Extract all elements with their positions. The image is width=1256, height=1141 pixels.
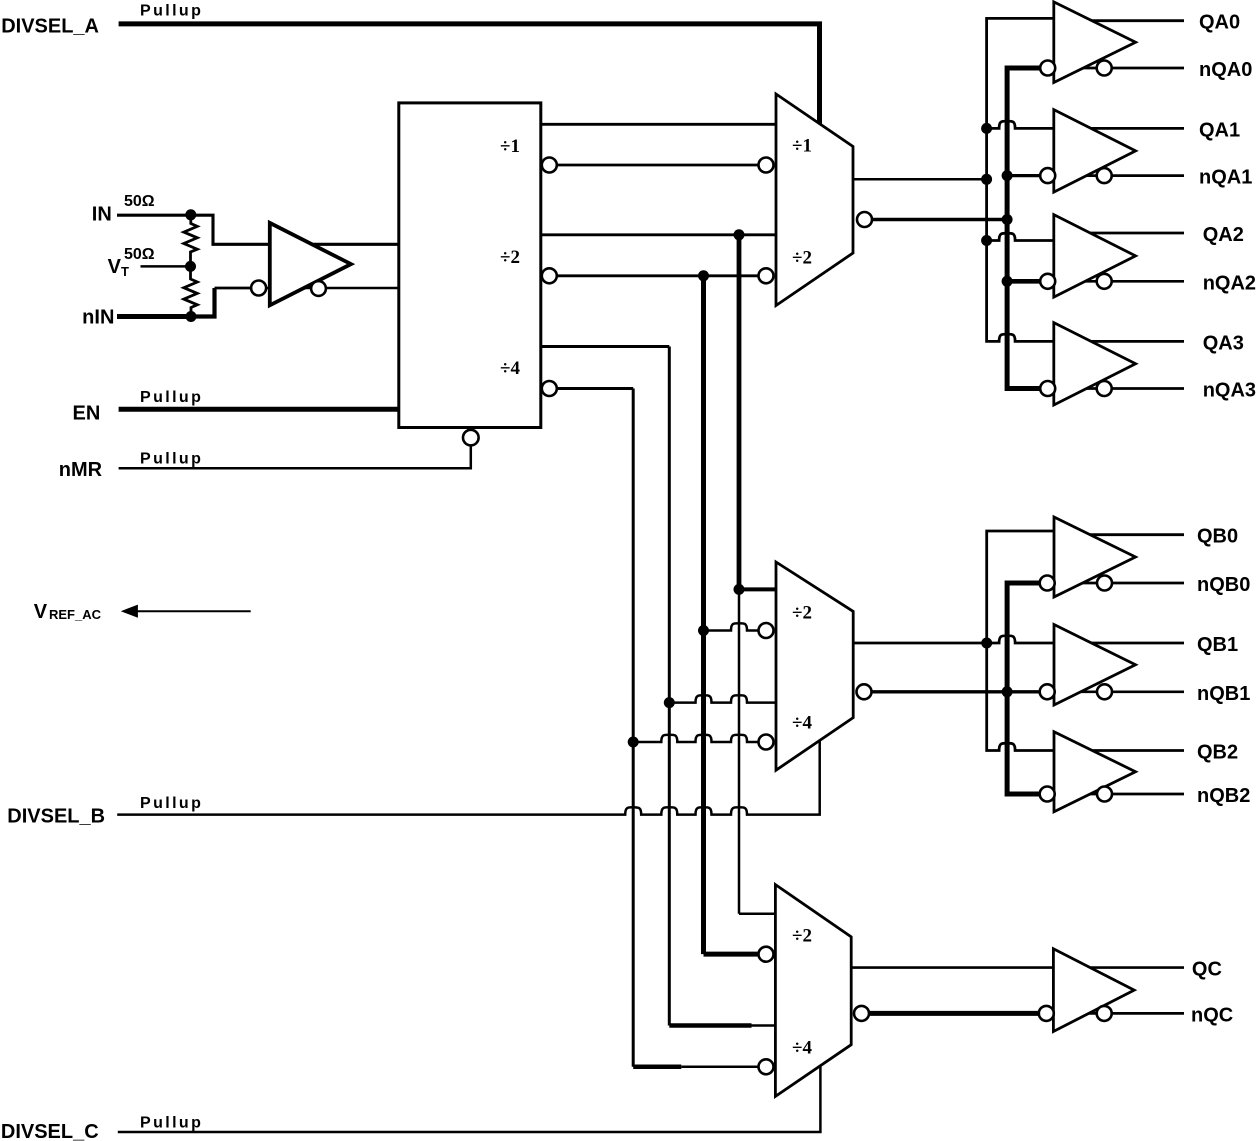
svg-text:÷2: ÷2 — [792, 925, 812, 946]
svg-text:÷2: ÷2 — [500, 247, 520, 268]
svg-text:Pullup: Pullup — [140, 1115, 203, 1132]
svg-text:nQA1: nQA1 — [1199, 167, 1252, 189]
svg-text:T: T — [121, 264, 129, 279]
svg-text:nQA0: nQA0 — [1199, 59, 1252, 81]
svg-text:REF_AC: REF_AC — [49, 607, 102, 622]
svg-text:Pullup: Pullup — [140, 795, 203, 812]
svg-text:Pullup: Pullup — [140, 389, 203, 406]
svg-text:÷1: ÷1 — [500, 136, 520, 157]
svg-text:÷2: ÷2 — [792, 603, 812, 624]
svg-text:nQC: nQC — [1191, 1004, 1233, 1026]
svg-text:DIVSEL_C: DIVSEL_C — [1, 1121, 99, 1141]
svg-text:nQB2: nQB2 — [1197, 785, 1250, 807]
svg-text:Pullup: Pullup — [140, 3, 203, 20]
svg-text:QA3: QA3 — [1203, 332, 1244, 354]
svg-text:QA2: QA2 — [1203, 224, 1244, 246]
svg-text:÷4: ÷4 — [792, 712, 812, 733]
svg-text:V: V — [108, 256, 122, 278]
svg-text:nIN: nIN — [82, 307, 114, 329]
svg-text:nQA3: nQA3 — [1203, 380, 1256, 402]
svg-text:V: V — [34, 601, 48, 623]
svg-text:÷4: ÷4 — [500, 358, 520, 379]
svg-text:nMR: nMR — [59, 459, 103, 481]
svg-text:DIVSEL_A: DIVSEL_A — [1, 16, 99, 38]
svg-text:DIVSEL_B: DIVSEL_B — [7, 806, 105, 828]
svg-text:50Ω: 50Ω — [124, 193, 155, 210]
svg-text:EN: EN — [73, 403, 101, 425]
svg-text:IN: IN — [92, 204, 112, 226]
svg-text:QB0: QB0 — [1197, 526, 1238, 548]
svg-text:QC: QC — [1192, 959, 1222, 981]
svg-text:÷2: ÷2 — [792, 247, 812, 268]
svg-text:nQA2: nQA2 — [1203, 272, 1256, 294]
svg-text:QB1: QB1 — [1197, 634, 1238, 656]
svg-text:nQB0: nQB0 — [1197, 574, 1250, 596]
svg-text:Pullup: Pullup — [140, 450, 203, 467]
svg-text:QA0: QA0 — [1199, 12, 1240, 34]
svg-text:÷1: ÷1 — [792, 135, 812, 156]
svg-text:QB2: QB2 — [1197, 742, 1238, 764]
svg-text:nQB1: nQB1 — [1197, 683, 1250, 705]
svg-text:QA1: QA1 — [1199, 119, 1240, 141]
svg-text:÷4: ÷4 — [792, 1037, 812, 1058]
svg-text:50Ω: 50Ω — [124, 246, 155, 263]
